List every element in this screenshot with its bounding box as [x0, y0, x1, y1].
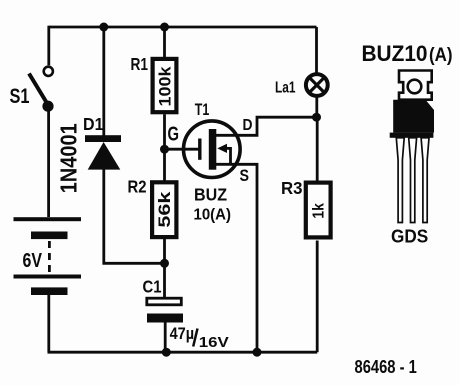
node dot R2/D1/C1	[160, 259, 169, 268]
svg-text:BUZ10: BUZ10	[362, 41, 428, 66]
svg-text:47µ: 47µ	[170, 325, 195, 343]
battery plate 4 (short thick)	[31, 287, 68, 295]
wire switch to battery	[47, 107, 50, 218]
wire drain lead	[216, 117, 317, 135]
svg-text:BUZ: BUZ	[194, 185, 227, 205]
svg-text:La1: La1	[275, 80, 296, 97]
lamp La1 circle	[306, 74, 328, 96]
node dot source / bottom rail	[253, 348, 262, 357]
node dot top rail / R1	[160, 23, 169, 32]
wire R2 bottom to C1 top	[163, 239, 166, 298]
wire bottom rail	[48, 351, 318, 354]
switch S1 pivot dot	[42, 101, 53, 112]
svg-text:6V: 6V	[23, 249, 43, 272]
wire D1 branch top	[102, 27, 105, 136]
wire source lead	[216, 164, 258, 352]
T1 gate bar	[198, 139, 201, 160]
resistor R1	[153, 59, 177, 112]
wire lamp to drain junction	[315, 97, 318, 117]
battery plate 1 (long)	[14, 217, 82, 221]
wire left rail upper (to switch)	[47, 26, 50, 66]
svg-text:R3: R3	[281, 178, 303, 198]
capacitor C1 top plate (hollow)	[147, 298, 182, 305]
wire top rail	[49, 26, 317, 29]
battery dashed link	[48, 241, 51, 274]
svg-text:56k: 56k	[156, 191, 174, 228]
svg-text:(A): (A)	[429, 45, 453, 66]
svg-text:100k: 100k	[156, 66, 174, 107]
node dot top rail / D1	[99, 23, 108, 32]
wire C1 bottom to bottom rail	[164, 323, 167, 353]
package tab outline	[399, 71, 432, 100]
battery plate 2 (short thick)	[31, 232, 68, 240]
svg-text:C1: C1	[143, 277, 162, 297]
svg-text:GDS: GDS	[391, 227, 428, 247]
node dot C1 / bottom rail	[162, 348, 171, 357]
T1 channel bar	[209, 129, 217, 170]
package leg D	[409, 138, 417, 223]
svg-text:R1: R1	[131, 54, 149, 74]
wire R3 bottom to bottom rail	[316, 241, 319, 353]
svg-text:86468 - 1: 86468 - 1	[355, 357, 417, 377]
package flange	[390, 133, 434, 138]
svg-text:S1: S1	[10, 85, 30, 108]
wire top rail to R1	[163, 27, 166, 57]
wire right rail top (to lamp)	[315, 27, 318, 73]
wire gate lead	[165, 148, 200, 151]
package tab hole	[408, 80, 422, 94]
wire junction to R3 top	[316, 117, 319, 181]
svg-text:10(A): 10(A)	[194, 207, 232, 224]
svg-text:R2: R2	[128, 177, 147, 197]
svg-text:16V: 16V	[199, 334, 229, 351]
package body	[393, 100, 434, 133]
diode D1 cathode bar	[85, 135, 121, 142]
svg-text:1k: 1k	[311, 203, 328, 219]
package leg G	[396, 138, 404, 223]
wire battery to bottom rail	[47, 295, 50, 352]
T1 arrowhead	[217, 144, 227, 153]
node G (gate junction)	[160, 145, 169, 154]
switch S1 lever	[29, 74, 48, 105]
package leg S	[421, 138, 429, 223]
lamp La1 cross	[309, 77, 324, 92]
wire D1 branch bottom + horizontal to node	[104, 169, 165, 263]
capacitor C1 bottom plate (solid)	[147, 314, 183, 323]
svg-text:S: S	[240, 167, 250, 185]
svg-text:G: G	[168, 124, 180, 146]
battery plate 3 (long)	[14, 275, 82, 279]
wire R1 bottom to R2 top (through gate node)	[163, 114, 166, 180]
svg-text:D1: D1	[83, 114, 104, 134]
diode D1 triangle	[88, 142, 121, 170]
svg-text:T1: T1	[195, 101, 210, 119]
svg-text:D: D	[243, 117, 253, 134]
value slash	[193, 329, 197, 347]
resistor R2	[152, 182, 176, 237]
resistor R3	[306, 183, 331, 238]
T1 substrate arrow lead	[222, 148, 231, 164]
transistor T1 circle	[184, 121, 241, 178]
switch S1 contact circle	[44, 67, 53, 76]
node dot drain / lamp / R3	[312, 113, 321, 122]
svg-text:1N4001: 1N4001	[55, 123, 81, 193]
